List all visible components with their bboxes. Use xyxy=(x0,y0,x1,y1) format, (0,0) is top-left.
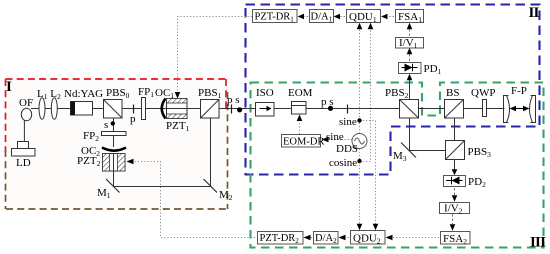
p s markers after PBS1 xyxy=(227,94,242,114)
wire PD2 to I/V2 (dashed down) xyxy=(454,188,456,195)
wire D/A2 to PZT-DR2 (dotted) xyxy=(310,237,312,239)
OC1 curved mirror xyxy=(155,87,174,119)
D/A converter D/A1 xyxy=(310,10,334,24)
Nd:YAG gain medium xyxy=(64,88,103,115)
svg-text:ISO: ISO xyxy=(256,87,274,99)
frequency servo amplifier FSA1 xyxy=(396,10,424,25)
svg-text:LD: LD xyxy=(16,157,31,169)
svg-text:EOM: EOM xyxy=(288,87,313,99)
OF fiber loop xyxy=(19,97,33,142)
wire DDS top to sine junction xyxy=(359,121,361,134)
wire PZT-DR1 to PZT1 (dotted) xyxy=(178,17,253,93)
wire PBS1 to ISO xyxy=(219,108,256,110)
wire QDU2 to D/A2 (dotted) xyxy=(345,237,349,239)
wire QDU1 to D/A1 xyxy=(340,16,345,18)
PZT-DR2 xyxy=(258,232,304,246)
wire cosine down to QDU2 (dotted) xyxy=(359,162,361,225)
PBS1 cube xyxy=(198,87,222,118)
EOM driver EOM-DR xyxy=(282,135,325,148)
svg-text:EOM-DR: EOM-DR xyxy=(283,137,324,148)
PBS0 cube xyxy=(104,87,130,118)
wire PBS0 down to FP2 xyxy=(113,118,115,132)
arrow into PZT1 top xyxy=(175,92,181,99)
svg-text:QDU1: QDU1 xyxy=(349,11,377,24)
sine label and junction xyxy=(339,116,362,128)
wire M3 to PBS3 xyxy=(410,150,446,152)
wire cosine jog up to QDU1 (dotted) xyxy=(360,29,371,162)
lens L2 xyxy=(51,98,57,120)
svg-text:p s: p s xyxy=(227,94,240,106)
arrow into PZT2 right side xyxy=(127,159,134,165)
PBS3 cube xyxy=(446,141,492,160)
QDU2 xyxy=(351,231,386,246)
box I red dashed (top and upper sides) xyxy=(6,79,227,152)
svg-text:s: s xyxy=(104,119,108,131)
wire sine up to QDU1 (dotted) xyxy=(359,29,361,121)
wire D/A1 to PZT-DR1 xyxy=(304,16,308,18)
cosine label and junction xyxy=(329,157,362,169)
svg-text:III: III xyxy=(530,235,546,251)
laser diode LD xyxy=(12,142,36,170)
FP2 etalon xyxy=(83,130,126,143)
mirror M3 xyxy=(393,143,416,164)
EOM modulator xyxy=(288,87,313,114)
wire PBS2 up to PD1 xyxy=(409,80,411,100)
wire FSA2 to QDU2 (dotted) xyxy=(392,237,439,239)
svg-text:sine: sine xyxy=(339,116,357,128)
wire PBS2 down to M3 xyxy=(409,118,411,151)
wire I/V2 to FSA2 (dashed down) xyxy=(452,214,454,224)
wire PBS0 to OC1 xyxy=(122,108,201,110)
wire BS to F-P xyxy=(464,108,505,110)
p s markers after EOM xyxy=(321,96,348,114)
box III green dashed polygon with notch xyxy=(251,83,544,248)
svg-text:PZT-DR1: PZT-DR1 xyxy=(255,12,295,24)
wire PBS2 to BS xyxy=(419,108,445,110)
wire OF to Nd:YAG xyxy=(31,108,71,110)
mirror M2 xyxy=(204,179,233,202)
svg-text:BS: BS xyxy=(446,87,459,99)
wire PZT-DR2 to PZT2 (dotted) xyxy=(134,162,255,238)
svg-text:QDU2: QDU2 xyxy=(353,233,381,246)
box I background tint xyxy=(6,79,228,209)
svg-text:PZT-DR2: PZT-DR2 xyxy=(260,233,300,245)
s polarization marker below PBS0 xyxy=(104,119,115,131)
svg-text:II: II xyxy=(529,5,540,21)
DDS oscillator xyxy=(336,134,367,156)
wire FP2 to OC2 xyxy=(113,136,115,147)
beam splitter BS xyxy=(445,87,464,118)
svg-text:sine: sine xyxy=(326,131,344,143)
F-P cavity xyxy=(504,85,536,123)
wire Nd:YAG to PBS0 xyxy=(93,108,105,110)
OC2 curved mirror xyxy=(81,145,126,158)
FP1 etalon xyxy=(138,86,154,120)
PZT1 actuator xyxy=(166,99,190,134)
wire DDS to EOM-DR (sine) xyxy=(329,139,352,141)
svg-text:cosine: cosine xyxy=(329,157,357,169)
wire PD1 to I/V1 (dashed up) xyxy=(409,54,411,61)
quadrature demodulation unit QDU1 xyxy=(347,10,381,25)
wire EOM-DR up to EOM xyxy=(299,121,301,134)
svg-text:p: p xyxy=(130,113,136,125)
wire through PZT2 to M1 xyxy=(113,153,115,187)
wire DDS bottom to cosine junction xyxy=(359,149,361,162)
I/V converter I/V2 xyxy=(440,203,470,216)
svg-text:OF: OF xyxy=(19,97,33,109)
wire sine jog down to QDU2 (dotted) xyxy=(360,121,376,225)
wire M2 up to PBS1 xyxy=(210,118,212,187)
isolator ISO xyxy=(256,87,275,116)
box I brown dashed (bottom and lower sides) xyxy=(6,92,230,209)
svg-text:Nd:YAG: Nd:YAG xyxy=(64,88,103,100)
bottom tint strip xyxy=(246,248,550,254)
PZT2 actuator xyxy=(77,154,125,172)
wire I/V1 to FSA1 (dashed up) xyxy=(409,29,411,36)
PZT driver PZT-DR1 xyxy=(253,10,298,24)
lens L1 xyxy=(39,98,45,120)
PBS2 cube xyxy=(385,87,419,118)
photodetector PD1 xyxy=(399,63,442,77)
p polarization marker right of PBS0 xyxy=(130,105,136,126)
D/A2 xyxy=(314,232,339,246)
wire ISO to EOM xyxy=(274,108,292,110)
wire BS down to PBS3 xyxy=(454,118,456,141)
mirror M1 xyxy=(97,179,120,200)
quarter wave plate QWP xyxy=(471,87,495,117)
svg-text:DDS: DDS xyxy=(336,143,358,155)
wire PBS3 down to PD2 xyxy=(454,159,456,170)
svg-text:F-P: F-P xyxy=(511,85,527,97)
photodetector PD2 xyxy=(444,176,487,190)
FSA2 xyxy=(441,232,471,247)
box II blue dashed polygon xyxy=(246,5,540,175)
wire FSA1 to QDU1 xyxy=(387,16,394,18)
I/V converter I/V1 xyxy=(396,37,424,50)
wire M1 to M2 xyxy=(114,186,211,188)
svg-text:QWP: QWP xyxy=(471,87,495,99)
wire EOM to PBS2 xyxy=(306,108,400,110)
svg-text:I: I xyxy=(6,79,12,95)
